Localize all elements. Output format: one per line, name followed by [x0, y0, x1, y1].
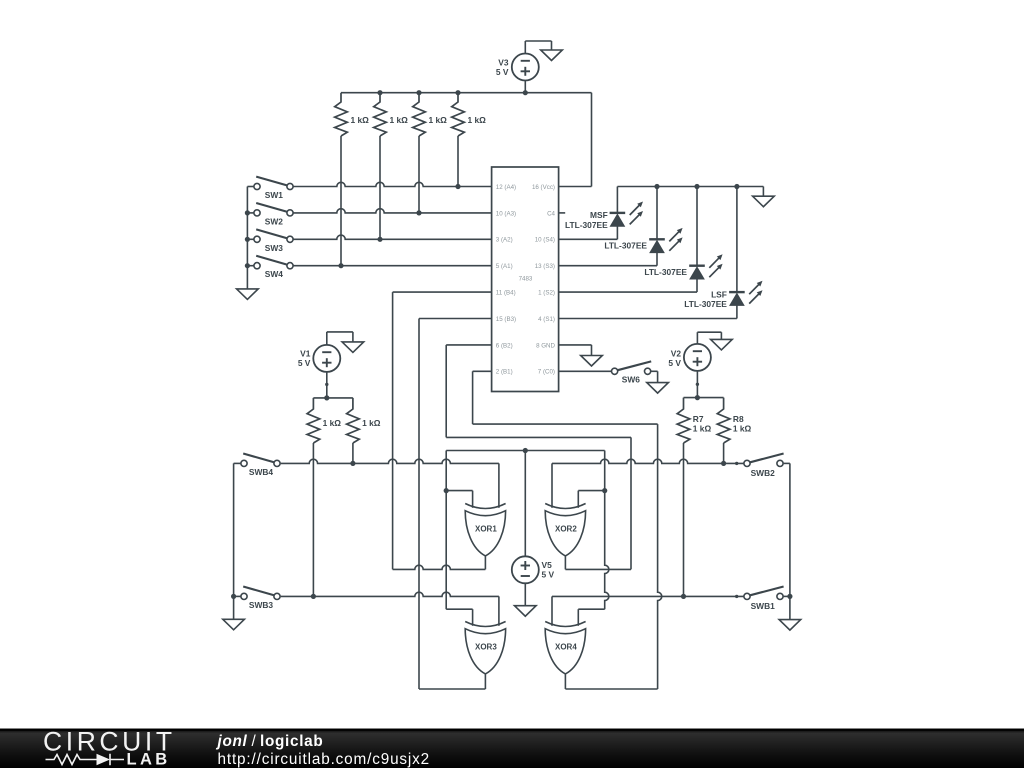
node rail-LED3 — [694, 184, 699, 189]
ground (LED rail) — [753, 196, 775, 207]
wire bus to SW4 — [247, 265, 253, 267]
node SWB1 in — [735, 595, 738, 598]
svg-text:logiclab: logiclab — [260, 733, 323, 750]
svg-text:MSF: MSF — [590, 210, 608, 220]
resistor R7 1k — [677, 398, 690, 443]
voltage source V1 5V — [313, 345, 340, 372]
svg-text:http://circuitlab.com/c9usjx2: http://circuitlab.com/c9usjx2 — [218, 751, 431, 768]
node SW1-R4 — [455, 184, 460, 189]
switch SW2 — [254, 210, 260, 216]
node SW4-R1 — [338, 263, 343, 268]
node V1 terminal — [325, 383, 328, 386]
svg-text:SW1: SW1 — [265, 190, 283, 200]
LED2 LTL-307EE — [656, 187, 658, 240]
wire V2 top to ground — [696, 332, 698, 344]
wire pin15 B3 to XOR3 out — [419, 318, 492, 320]
wire V2 bottom — [696, 371, 698, 398]
node SWB4-res — [350, 461, 355, 466]
node SW3-R2 — [377, 237, 382, 242]
svg-text:LTL-307EE: LTL-307EE — [565, 220, 608, 230]
svg-text:SWB4: SWB4 — [249, 467, 274, 477]
wire SWB1 row — [552, 595, 744, 597]
svg-text:SW4: SW4 — [265, 269, 283, 279]
switch SW1 — [254, 183, 260, 189]
svg-text:5 V: 5 V — [298, 358, 311, 368]
svg-text:1 kΩ: 1 kΩ — [351, 115, 370, 125]
svg-text:5 (A1): 5 (A1) — [496, 263, 513, 270]
svg-text:1 kΩ: 1 kΩ — [468, 115, 487, 125]
svg-text:LTL-307EE: LTL-307EE — [684, 299, 727, 309]
svg-text:V3: V3 — [498, 58, 509, 68]
ground (V5) — [515, 606, 537, 617]
switch SW4 — [254, 263, 260, 269]
wire XOR2 right input — [578, 490, 604, 492]
svg-text:V1: V1 — [300, 348, 311, 358]
resistor 1k (B-pull right) — [347, 398, 360, 443]
svg-text:V2: V2 — [671, 348, 682, 358]
svg-text:SWB2: SWB2 — [751, 468, 776, 478]
ground (SWB right) — [779, 620, 801, 631]
wire bus to SW1 — [247, 186, 253, 188]
wire V1 top to ground — [326, 332, 328, 345]
wire SW bus — [246, 187, 248, 289]
svg-text:SW3: SW3 — [265, 243, 283, 253]
wire bus to SW2 — [247, 212, 253, 214]
XOR gate XOR3 — [465, 622, 505, 627]
wire LED4 to pin S1 — [559, 318, 737, 320]
svg-text:R7: R7 — [693, 414, 704, 424]
svg-text:11 (B4): 11 (B4) — [496, 290, 516, 297]
svg-text:10 (S4): 10 (S4) — [535, 237, 555, 244]
pin C4 stub — [559, 212, 566, 214]
wire LED3 to pin S2 — [559, 291, 697, 293]
wire LED rail — [617, 186, 763, 188]
svg-text:V5: V5 — [542, 560, 553, 570]
svg-text:1 kΩ: 1 kΩ — [693, 424, 712, 434]
ground (SW bus) — [237, 289, 259, 300]
svg-text:XOR1: XOR1 — [475, 524, 497, 533]
svg-text:15 (B3): 15 (B3) — [496, 316, 516, 323]
node SWB2 in — [735, 462, 738, 465]
wire pin11 B4 to XOR1 out — [393, 291, 492, 293]
resistor 1k (A4 pull) — [335, 93, 348, 136]
switch SWB3 — [241, 593, 247, 599]
node rail-LED4 — [734, 184, 739, 189]
wire SWB left bus — [233, 463, 235, 619]
svg-text:3 (A2): 3 (A2) — [496, 237, 513, 244]
wire V5 rail — [446, 450, 605, 452]
svg-text:13 (S3): 13 (S3) — [535, 263, 555, 270]
svg-text:16 (Vcc): 16 (Vcc) — [532, 184, 555, 191]
wire V1 res bar — [313, 397, 353, 399]
wire pin6 B2 to XOR2 out — [446, 344, 491, 346]
ground (V2) — [711, 339, 733, 350]
svg-text:C4: C4 — [547, 210, 555, 217]
wire pin2 B1 to XOR4 out — [473, 370, 492, 372]
switch SWB4 — [241, 460, 247, 466]
node bus-SW4 — [245, 263, 250, 268]
node SWB3-res — [311, 594, 316, 599]
LED LSF LTL-307EE — [736, 187, 738, 293]
svg-text:LTL-307EE: LTL-307EE — [644, 267, 687, 277]
ground (pin 8) — [581, 356, 603, 367]
LED3 LTL-307EE — [696, 187, 698, 266]
wire Vcc drop — [591, 93, 593, 187]
svg-text:10 (A3): 10 (A3) — [496, 210, 516, 217]
node XOR2 right tap — [602, 488, 607, 493]
wire rail to ground — [762, 187, 764, 197]
resistor R8 1k — [717, 398, 730, 443]
svg-text:XOR4: XOR4 — [555, 642, 577, 651]
svg-text:7483: 7483 — [519, 275, 533, 282]
svg-text:1 kΩ: 1 kΩ — [429, 115, 448, 125]
wire pin7 C0 to SW6 — [559, 370, 612, 372]
svg-text:LAB: LAB — [127, 751, 171, 768]
node V2 terminal — [696, 383, 699, 386]
wire bus to SW3 — [247, 238, 253, 240]
svg-text:5 V: 5 V — [542, 570, 555, 580]
wire LED1 to pin S4 — [559, 238, 618, 240]
wire V1 bottom — [326, 372, 328, 398]
switch SWB1 — [744, 593, 750, 599]
wire V3 top to ground — [524, 41, 526, 54]
ground (V3) — [541, 50, 563, 61]
wire XOR1 left input — [446, 490, 472, 492]
switch SW6 — [612, 368, 618, 374]
wire SWB right bus — [784, 462, 790, 464]
resistor 1k (A1 pull) — [452, 93, 465, 136]
XOR gate XOR4 — [545, 622, 585, 627]
ground (V1) — [342, 342, 364, 353]
resistor 1k (A3 pull) — [374, 93, 387, 136]
svg-text:1 kΩ: 1 kΩ — [390, 115, 409, 125]
wire SW6 to ground — [651, 370, 658, 372]
wire SW1 row to pin 12 — [293, 182, 491, 186]
svg-text:SW2: SW2 — [265, 216, 283, 226]
svg-text:4 (S1): 4 (S1) — [538, 316, 555, 323]
ground (SWB left) — [223, 619, 245, 630]
node rail-R3 — [416, 90, 421, 95]
node rail-V5 — [523, 448, 528, 453]
wire top rail — [341, 92, 592, 94]
switch SW3 — [254, 236, 260, 242]
node bus-SWB3 — [231, 594, 236, 599]
node SWB2-R8 — [721, 461, 726, 466]
node bus-SW3 — [245, 237, 250, 242]
node V1-bar — [324, 395, 329, 400]
wire SW3 row to pin 3 — [293, 235, 491, 239]
voltage source V5 5V — [512, 556, 539, 583]
XOR gate XOR2 — [545, 504, 585, 509]
LED MSF LTL-307EE — [616, 187, 618, 213]
svg-text:SWB1: SWB1 — [751, 601, 776, 611]
svg-text:5 V: 5 V — [668, 358, 681, 368]
svg-text:1 kΩ: 1 kΩ — [733, 424, 752, 434]
wire SW2 row to pin 10 — [293, 209, 491, 213]
resistor 1k (B4 pulldown) — [307, 398, 320, 443]
node rail-LED2 — [654, 184, 659, 189]
svg-text:5 V: 5 V — [496, 67, 509, 77]
wire V5 left drop — [445, 451, 447, 610]
svg-text:SW6: SW6 — [622, 375, 640, 385]
ground (SW6) — [647, 383, 669, 394]
voltage source V3 5V — [512, 54, 539, 81]
wire SWB3 row — [281, 592, 499, 596]
svg-text:12 (A4): 12 (A4) — [496, 184, 516, 191]
svg-text:R8: R8 — [733, 414, 744, 424]
wire SW4 row to pin 5 — [293, 265, 491, 267]
node SWB1-R7 — [681, 594, 686, 599]
node rail-R4 — [455, 90, 460, 95]
IC U1 7483 body — [492, 167, 559, 392]
svg-text:LSF: LSF — [711, 289, 727, 299]
node XOR1 left tap — [444, 488, 449, 493]
wire V5 right drop — [605, 451, 609, 610]
svg-text:SWB3: SWB3 — [249, 600, 274, 610]
node SW2-R3 — [416, 210, 421, 215]
wire SWB2 row — [552, 459, 744, 463]
wire V2 res bar — [684, 397, 724, 399]
node bus-SW2 — [245, 210, 250, 215]
node rail-R2 — [377, 90, 382, 95]
voltage source V2 5V — [684, 344, 711, 371]
wire SWB4 row — [281, 459, 499, 463]
node V2-bar — [695, 395, 700, 400]
svg-text:8 GND: 8 GND — [536, 342, 555, 349]
svg-text:1 kΩ: 1 kΩ — [362, 418, 381, 428]
svg-text:LTL-307EE: LTL-307EE — [604, 241, 647, 251]
resistor 1k (A2 pull) — [413, 93, 426, 136]
wire pin8 GND — [559, 344, 592, 346]
svg-text:7 (C0): 7 (C0) — [538, 369, 555, 376]
svg-text:XOR3: XOR3 — [475, 642, 497, 651]
svg-text:jonl: jonl — [216, 733, 248, 750]
node rail-V3 — [523, 90, 528, 95]
XOR gate XOR1 — [465, 504, 505, 509]
switch SWB2 — [744, 460, 750, 466]
svg-text:1 (S2): 1 (S2) — [538, 290, 555, 297]
wire V5 to ground — [524, 583, 526, 606]
svg-text:XOR2: XOR2 — [555, 524, 577, 533]
svg-text:2 (B1): 2 (B1) — [496, 369, 513, 376]
svg-text:1 kΩ: 1 kΩ — [323, 418, 342, 428]
node bus-SWB1 — [787, 594, 792, 599]
svg-text:6 (B2): 6 (B2) — [496, 342, 513, 349]
wire LED2 to pin S3 — [559, 265, 657, 267]
